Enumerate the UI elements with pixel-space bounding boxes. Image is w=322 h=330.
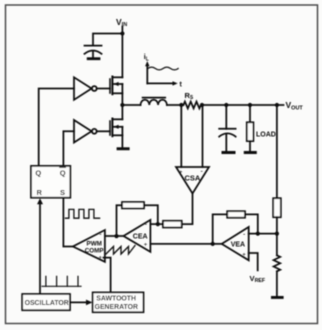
svg-text:R: R (37, 188, 43, 197)
node VEA output junction (211, 242, 215, 246)
svg-text:Q: Q (60, 168, 66, 177)
svg-text:-: - (243, 231, 246, 238)
wire switch node to inductor (122, 104, 140, 106)
transistor Q2 (low-side MOSFET) (109, 121, 111, 135)
svg-text:GENERATOR: GENERATOR (95, 304, 138, 311)
svg-text:S: S (60, 188, 65, 197)
wire divider to VEA input (276, 217, 278, 233)
ground (divider) (271, 296, 284, 299)
node VEA feedback junction (256, 232, 260, 236)
node divider junction (275, 103, 279, 107)
wire Q to U1 input (39, 89, 74, 166)
svg-text:CEA: CEA (133, 234, 148, 241)
waveform iL annotation (146, 65, 148, 84)
ground (input cap) (87, 57, 101, 60)
node VIN label (116, 17, 127, 28)
node CEA inverting junction (156, 222, 160, 226)
ground (Q2 source) (117, 147, 130, 150)
node Rs right junction (200, 103, 204, 107)
op-amp VEA (222, 227, 249, 260)
node VREF label (250, 274, 266, 284)
node LOAD junction (248, 103, 252, 107)
wire VEA output to CEA + input (150, 243, 221, 245)
svg-text:VREF: VREF (250, 274, 266, 284)
sawtooth generator block (93, 292, 144, 312)
latch U3 (SR flip-flop) (31, 166, 70, 198)
wire to input capacitor (93, 34, 122, 46)
node Rs left junction (179, 103, 183, 107)
waveform square-wave annotation (65, 209, 99, 218)
svg-text:RS: RS (185, 91, 194, 101)
resistor LOAD (249, 105, 251, 122)
svg-text:COMP: COMP (85, 247, 104, 254)
wire oscillator to sawtooth generator (arrow) (70, 301, 87, 303)
op-amp PWM COMP (73, 230, 105, 262)
op-amp CEA (124, 220, 151, 252)
ground (output cap) (222, 151, 236, 154)
op-amp CSA (176, 167, 209, 194)
wire CEA output to PWM COMP - input (105, 235, 124, 237)
capacitor COUT (225, 105, 227, 129)
svg-text:+: + (144, 242, 148, 248)
resistor R-VEA-feedback (245, 214, 258, 233)
svg-text:Q: Q (35, 168, 41, 177)
wire PWM COMP output to latch S (63, 198, 73, 247)
inverter U2 (low-side driver) (74, 120, 92, 143)
oscillator block (22, 294, 70, 310)
node divider tap junction (275, 232, 279, 236)
svg-text:t: t (180, 82, 183, 89)
wire U1 output to Q1 gate (97, 88, 110, 90)
resistor R-divider-top (273, 198, 281, 217)
node output cap junction (224, 103, 228, 107)
ground (LOAD) (244, 151, 257, 154)
wire divider tap to VEA - input (249, 233, 277, 235)
wire VIN vertical (121, 27, 123, 78)
svg-text:+: + (242, 253, 246, 259)
svg-text:-: - (201, 169, 204, 176)
inductor L (141, 100, 167, 105)
svg-text:VEA: VEA (231, 242, 245, 249)
transistor Q1 (high-side MOSFET) (109, 79, 111, 93)
resistor R-divider-bottom (276, 234, 278, 256)
wire VEA + input to VREF (249, 253, 258, 270)
node CEA output junction (114, 234, 118, 238)
svg-text:+: + (179, 170, 183, 176)
wire VOUT to divider resistor (276, 105, 278, 198)
svg-text:iL: iL (144, 54, 149, 63)
svg-text:LOAD: LOAD (256, 132, 276, 139)
svg-text:+: + (99, 256, 103, 262)
node VIN junction (120, 31, 124, 35)
wire inductor to Rs (167, 104, 184, 106)
wire U2 output to Q2 gate (97, 130, 110, 132)
waveform oscillator pulses annotation (42, 285, 81, 287)
wire CSA output down (182, 194, 193, 225)
svg-text:SAWTOOTH: SAWTOOTH (96, 295, 136, 302)
waveform sawtooth annotation (106, 246, 135, 255)
resistor RS (183, 102, 200, 109)
svg-text:VOUT: VOUT (286, 100, 304, 112)
resistor R-CEA-feedback (144, 205, 158, 224)
node VOUT label (286, 100, 304, 112)
wire Rs to CSA - input (202, 105, 204, 167)
wire Rs to VOUT (201, 104, 284, 106)
resistor R (CSA to CEA) (163, 221, 182, 228)
wire oscillator to latch R (arrow) (39, 204, 41, 295)
inverter U1 (high-side driver) (74, 77, 92, 100)
node switch-node junction (120, 103, 124, 107)
wire resistor to CEA - input (150, 223, 163, 225)
wire Qbar to U2 input (63, 131, 74, 166)
wire sawtooth generator to PWM COMP + input (104, 258, 111, 292)
capacitor CIN (85, 45, 102, 47)
wire Rs to CSA + input (180, 105, 182, 167)
svg-text:OSCILLATOR: OSCILLATOR (25, 300, 69, 307)
svg-text:CSA: CSA (185, 174, 201, 183)
